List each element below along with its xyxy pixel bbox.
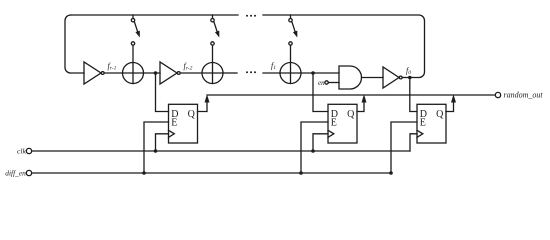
svg-text:diff_en: diff_en [5, 169, 26, 178]
svg-text:clk: clk [17, 147, 26, 156]
svg-text:E: E [171, 118, 177, 129]
svg-text:random_out: random_out [504, 91, 544, 100]
svg-text:Q: Q [347, 109, 355, 120]
svg-text:Q: Q [188, 109, 196, 120]
svg-text:E: E [331, 118, 337, 129]
svg-text:en: en [318, 79, 325, 87]
svg-text:E: E [420, 118, 426, 129]
svg-text:Q: Q [436, 109, 444, 120]
